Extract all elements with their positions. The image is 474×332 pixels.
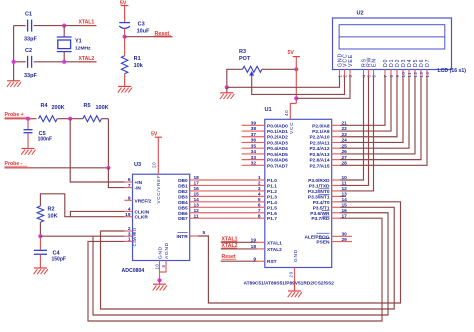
wire left vertical C1-C2-ground — [13, 26, 15, 81]
wire junction to R1 — [124, 37, 126, 56]
svg-text:P3.3/INT1: P3.3/INT1 — [308, 194, 330, 200]
svg-text:29: 29 — [342, 237, 348, 243]
svg-text:3: 3 — [258, 186, 261, 192]
svg-text:39: 39 — [251, 121, 257, 127]
svg-text:AT89C51/AT89S51/P89V51RD2/CS2/: AT89C51/AT89S51/P89V51RD2/CS2/SS2 — [244, 281, 335, 287]
svg-text:XTAL2: XTAL2 — [79, 56, 95, 62]
wire LCD D6 to P2.6 — [340, 77, 421, 160]
wire Y1 bottom — [63, 52, 65, 62]
junction R2/C4/WR — [38, 234, 42, 238]
wire pot left to ground — [227, 69, 243, 87]
op-amp U3 ADC0804 body — [133, 174, 190, 260]
U1 P1.0-P1.7 pin stubs (pins 1-8) — [257, 179, 265, 181]
ground below U3 — [153, 283, 166, 285]
wire divider node to +IN — [70, 119, 124, 182]
U3 left pins +IN -IN VREF/2 CLKIN CLKR — [124, 181, 132, 183]
svg-text:36: 36 — [251, 138, 257, 144]
wire R5 right to Probe- rail — [101, 118, 108, 120]
wire pot ground stub — [226, 87, 228, 93]
wire ground to LCD GND (pin1) — [227, 77, 340, 88]
wire LCD RW to P3.1 — [340, 77, 369, 186]
junction XTAL2/Y1 — [62, 60, 66, 64]
svg-text:GND: GND — [293, 249, 299, 262]
resistor R1 — [121, 56, 127, 74]
wire Reset net to U1 RST — [221, 260, 257, 262]
svg-text:33: 33 — [251, 155, 257, 161]
svg-text:9: 9 — [128, 196, 131, 202]
ground below R1 — [118, 85, 131, 87]
svg-text:30: 30 — [342, 232, 348, 238]
svg-text:C3: C3 — [138, 22, 145, 28]
svg-text:200K: 200K — [52, 105, 65, 111]
potentiometer R3 POT — [243, 66, 263, 72]
svg-text:33pF: 33pF — [24, 73, 37, 79]
junction pot/5V — [294, 67, 298, 71]
svg-text:37: 37 — [251, 132, 257, 138]
U1 P0.0-P0.7 pin stubs (pins 39-32) — [242, 124, 265, 126]
U1 ALE/PROG PSEN pin stubs (30,29) — [332, 235, 352, 237]
resistor R2 — [37, 206, 43, 222]
svg-text:P1.4: P1.4 — [267, 200, 277, 206]
svg-text:35: 35 — [251, 143, 257, 149]
svg-text:1: 1 — [258, 175, 261, 181]
wire LCD D1 to P2.1 — [340, 77, 391, 132]
U3 INTR pin — [190, 235, 198, 237]
svg-text:DB3: DB3 — [178, 194, 188, 200]
ground below U1 — [288, 290, 301, 292]
capacitor C1 — [27, 20, 29, 32]
svg-text:6: 6 — [128, 177, 131, 183]
svg-text:C2: C2 — [25, 48, 32, 54]
svg-text:VEE: VEE — [348, 54, 354, 67]
capacitor C4 — [34, 249, 47, 251]
svg-text:100nF: 100nF — [38, 137, 52, 143]
wire LCD D0 to P2.0 — [340, 77, 385, 126]
wire pot wiper to LCD VCC (pin2) — [252, 76, 345, 94]
U1 GND pin stub — [294, 268, 296, 282]
U1 P3.0-P3.7 pin stubs (pins 10-17) — [332, 179, 340, 181]
svg-text:P1.3: P1.3 — [267, 194, 277, 200]
wire to U1 ground symbol — [294, 281, 296, 291]
svg-text:P0.4/AD4: P0.4/AD4 — [267, 146, 288, 152]
svg-text:5V: 5V — [288, 50, 295, 56]
microcontroller U1 AT89C51 body — [265, 119, 332, 267]
svg-text:P2.5/A13: P2.5/A13 — [309, 152, 329, 158]
svg-text:P3.4/T0: P3.4/T0 — [313, 200, 330, 206]
ground below C4 — [34, 267, 47, 269]
svg-text:P1.2: P1.2 — [267, 189, 277, 195]
svg-text:P0.7/AD7: P0.7/AD7 — [267, 163, 288, 169]
wire Probe- net — [5, 167, 109, 169]
wire U3 INTR to U1 P3.4 (bus) — [198, 202, 401, 303]
svg-text:4: 4 — [128, 207, 131, 213]
svg-text:100K: 100K — [96, 105, 109, 111]
wire R2 top to CLKR — [40, 194, 124, 217]
svg-text:P2.4/A12: P2.4/A12 — [309, 146, 329, 152]
wire Probe+ net — [5, 118, 37, 120]
svg-text:VCC: VCC — [289, 121, 295, 134]
wire Probe- to -IN — [108, 168, 124, 188]
resistor R5 — [83, 116, 102, 122]
svg-text:RST: RST — [267, 259, 277, 265]
svg-text:DB6: DB6 — [178, 211, 188, 217]
svg-text:PSEN: PSEN — [316, 240, 330, 246]
svg-text:DB1: DB1 — [178, 183, 188, 189]
svg-text:1: 1 — [128, 237, 131, 243]
svg-text:C1: C1 — [25, 11, 32, 17]
svg-text:+IN: +IN — [135, 180, 143, 186]
wire C5 to ground — [27, 133, 29, 149]
svg-text:P0.2/AD2: P0.2/AD2 — [267, 135, 288, 141]
svg-text:5: 5 — [258, 197, 261, 203]
wire C3 to junction — [124, 28, 126, 36]
svg-text:10k: 10k — [134, 63, 144, 69]
svg-text:R5: R5 — [84, 103, 91, 109]
svg-text:LCD (16 x1): LCD (16 x1) — [438, 68, 467, 74]
svg-text:U2: U2 — [357, 11, 364, 17]
wire XTAL1 left segment — [14, 25, 26, 27]
svg-text:POT: POT — [239, 56, 251, 62]
wire R2 bottom to WR net — [39, 222, 41, 236]
LCD pin stubs 1-14 — [339, 70, 341, 77]
svg-text:DB5: DB5 — [178, 205, 188, 211]
wire 5V to C3 — [124, 6, 126, 23]
wire XTAL2 net to U1 — [221, 248, 257, 250]
svg-text:P1.0: P1.0 — [267, 178, 277, 184]
svg-text:5: 5 — [203, 230, 206, 236]
svg-text:P1.7: P1.7 — [267, 216, 277, 222]
svg-text:CS: CS — [132, 239, 137, 246]
svg-text:150pF: 150pF — [52, 256, 66, 262]
wire 5V to LCD VEE (pin3) — [296, 77, 350, 99]
wire LCD D4 to P2.4 — [340, 77, 409, 149]
svg-text:P2.2/A10: P2.2/A10 — [309, 135, 329, 141]
svg-text:DB2: DB2 — [178, 189, 188, 195]
wire WR net horizontal — [40, 235, 124, 237]
junction Probe+/C5 — [26, 117, 30, 121]
capacitor C2 — [27, 56, 29, 68]
svg-text:12MHz: 12MHz — [75, 46, 91, 52]
svg-text:P2.1/A9: P2.1/A9 — [312, 129, 330, 135]
svg-text:19: 19 — [125, 212, 131, 218]
wire R4 to R5 — [57, 118, 83, 120]
wire to U3 ground symbol — [159, 280, 161, 284]
svg-text:P3.0/RXD: P3.0/RXD — [308, 178, 330, 184]
svg-text:VREF/2: VREF/2 — [135, 198, 152, 204]
wire XTAL2 net (C2 right plate to net label) — [34, 61, 97, 63]
svg-text:P0.3/AD3: P0.3/AD3 — [267, 140, 288, 146]
ground below pot — [220, 92, 233, 94]
svg-text:40: 40 — [284, 110, 289, 116]
svg-text:WR: WR — [132, 232, 137, 240]
junction R4/R5 divider — [68, 117, 72, 121]
wire LCD D2 to P2.2 — [340, 77, 397, 137]
wire 5V to U3 pin 20 — [157, 137, 159, 174]
svg-text:8: 8 — [161, 264, 166, 267]
U3 data pins DB0-DB7 stubs — [190, 179, 198, 181]
wire XTAL1 net (C1 right plate to net label) — [34, 25, 97, 27]
svg-text:4: 4 — [258, 192, 261, 198]
wire LCD EN to P3.2 — [340, 77, 374, 191]
svg-text:P0.0/AD0: P0.0/AD0 — [267, 123, 288, 129]
wire pot right to 5V rail — [262, 68, 296, 70]
wire bus DB0-DB7 to P1.0-P1.7 — [198, 179, 257, 181]
resistor R4 — [39, 116, 58, 122]
svg-text:10: 10 — [155, 263, 160, 269]
wire 5V rail down — [295, 57, 297, 104]
svg-text:DB4: DB4 — [178, 200, 188, 206]
wire LCD D7 to P2.7 — [340, 77, 427, 166]
U1 VCC pin 40 — [290, 104, 296, 120]
svg-text:P2.3/A11: P2.3/A11 — [310, 140, 330, 146]
wire XTAL2 left segment — [14, 61, 26, 63]
svg-text:-IN: -IN — [135, 186, 142, 192]
U1 XTAL1 XTAL2 RST pin stubs (19,18,9) — [257, 241, 265, 243]
svg-text:P1.1: P1.1 — [267, 183, 277, 189]
junction pot ground node — [225, 85, 229, 89]
wire U3 RD to U1 P3.5 (bus) — [101, 207, 395, 309]
svg-text:EN: EN — [371, 58, 377, 67]
junction C2 left — [12, 60, 16, 64]
svg-text:P1.6: P1.6 — [267, 211, 277, 217]
svg-text:P2.6/A14: P2.6/A14 — [309, 158, 329, 164]
svg-text:R2: R2 — [48, 207, 55, 213]
svg-text:20: 20 — [152, 162, 157, 168]
svg-text:33pF: 33pF — [24, 37, 37, 43]
svg-text:DB7: DB7 — [178, 216, 188, 222]
junction Probe-/R5 — [106, 166, 110, 170]
svg-text:6: 6 — [258, 203, 261, 209]
svg-text:R1: R1 — [134, 56, 141, 62]
svg-text:U3: U3 — [134, 162, 141, 168]
svg-text:CLKIN: CLKIN — [135, 209, 150, 215]
U3 control pins RD WR CS stubs — [124, 230, 132, 232]
svg-text:GND: GND — [158, 246, 164, 259]
svg-text:P2.7/A15: P2.7/A15 — [309, 163, 329, 169]
ground below C5 — [22, 148, 35, 150]
U1 P2.0-P2.7 pin stubs (pins 21-28) — [332, 124, 340, 126]
wire U3 CS to U1 P3.7 (bus) — [88, 218, 382, 321]
svg-text:Y1: Y1 — [75, 38, 82, 44]
LCD display window — [339, 25, 445, 49]
wire Reset net — [125, 36, 173, 38]
svg-text:34: 34 — [251, 149, 257, 155]
capacitor C3 — [119, 22, 130, 24]
svg-text:R4: R4 — [41, 103, 49, 109]
svg-text:P0.6/AD6: P0.6/AD6 — [267, 158, 288, 164]
wire P3.3 stub — [340, 195, 346, 197]
wire LCD D3 to P2.3 — [340, 77, 403, 143]
svg-text:ALE/PROG: ALE/PROG — [304, 234, 329, 240]
LCD U2 outer body — [333, 18, 452, 70]
capacitor C5 — [27, 119, 29, 130]
svg-text:D7: D7 — [425, 59, 431, 67]
svg-text:2: 2 — [258, 181, 261, 187]
wire Y1 top — [63, 26, 65, 37]
ground below C1/C2 — [7, 80, 20, 82]
svg-text:INTR: INTR — [176, 234, 188, 240]
wire LCD D5 to P2.5 — [340, 77, 415, 154]
crystal Y1 — [57, 36, 72, 38]
svg-text:R3: R3 — [239, 49, 246, 55]
junction U3 ground — [157, 278, 161, 282]
svg-text:P0.1/AD1: P0.1/AD1 — [267, 129, 288, 135]
junction XTAL1/Y1 — [62, 24, 66, 28]
svg-text:3: 3 — [128, 231, 131, 237]
svg-text:CLKR: CLKR — [135, 215, 149, 221]
wire LCD RS to P3.0 — [340, 77, 364, 181]
svg-text:VCC/VREF: VCC/VREF — [156, 175, 161, 204]
svg-text:7: 7 — [258, 208, 261, 214]
svg-text:10uF: 10uF — [137, 28, 150, 34]
svg-text:ADC0804: ADC0804 — [122, 268, 145, 274]
svg-text:P1.5: P1.5 — [267, 205, 277, 211]
wire C4 to ground — [39, 254, 41, 268]
svg-text:U1: U1 — [265, 107, 272, 113]
wire branch to CLKIN — [70, 211, 124, 216]
svg-text:AGND: AGND — [164, 242, 170, 259]
svg-text:P3.7/RD: P3.7/RD — [311, 216, 330, 222]
svg-text:DB0: DB0 — [178, 178, 188, 184]
svg-text:XTAL1: XTAL1 — [267, 240, 282, 246]
junction Reset node — [123, 35, 127, 39]
U3 GND pin stubs — [159, 261, 161, 281]
svg-text:XTAL1: XTAL1 — [79, 20, 95, 26]
wire U3 WR to U1 P3.6 (bus) — [93, 213, 388, 315]
svg-text:38: 38 — [251, 126, 257, 132]
svg-text:32: 32 — [251, 161, 257, 167]
svg-text:XTAL2: XTAL2 — [267, 247, 282, 253]
svg-text:2: 2 — [128, 226, 131, 232]
svg-text:P0.5/AD5: P0.5/AD5 — [267, 152, 288, 158]
svg-text:8: 8 — [258, 213, 261, 219]
svg-text:7: 7 — [128, 183, 131, 189]
wire R1 to ground — [124, 74, 126, 87]
svg-text:20: 20 — [289, 271, 294, 277]
wire XTAL1 net to U1 — [221, 241, 257, 243]
junction 5V/VEE line — [294, 96, 298, 100]
svg-text:10K: 10K — [48, 214, 58, 220]
svg-text:P2.0/A8: P2.0/A8 — [312, 123, 330, 129]
